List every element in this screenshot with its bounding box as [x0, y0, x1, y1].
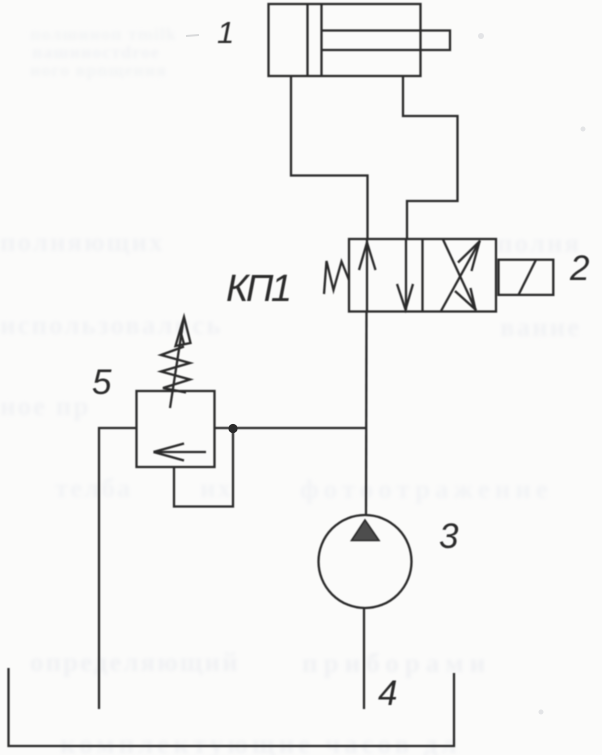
cylinder 1 body — [269, 4, 421, 76]
solenoid diagonal — [519, 260, 537, 295]
svg-text:полняющих: полняющих — [0, 227, 165, 257]
svg-text:3: 3 — [439, 517, 459, 556]
svg-text:определяющий: определяющий — [30, 647, 240, 677]
valve return spring — [324, 261, 349, 294]
cylinder 1 piston line b — [320, 4, 322, 76]
junction node dot — [228, 424, 237, 433]
line valve to pump — [365, 312, 368, 516]
svg-text:полшиноп тmilk: полшиноп тmilk — [30, 24, 177, 44]
valve up arrowhead — [359, 243, 376, 271]
valve position divider — [421, 239, 423, 312]
wire relief valve left port to tank — [99, 428, 137, 709]
cylinder 1 piston line a — [306, 4, 308, 76]
valve right-position diagonal arrow B — [443, 240, 476, 311]
tank 4 — [9, 668, 455, 746]
svg-text:их: их — [200, 473, 233, 503]
relief valve pilot arrowhead — [176, 317, 191, 346]
svg-text:2: 2 — [569, 249, 589, 288]
faint scan marks — [186, 35, 199, 36]
wire relief valve right port to pump line — [215, 427, 367, 429]
svg-text:телба: телба — [55, 473, 132, 503]
valve left-position down arrow line — [405, 239, 407, 310]
pump 3 circle — [319, 515, 412, 608]
line pump to tank — [363, 609, 365, 710]
pump output triangle — [352, 520, 380, 541]
svg-text:5: 5 — [92, 363, 112, 402]
wire cylinder left port to valve — [291, 76, 368, 239]
solenoid 2 box — [499, 260, 554, 295]
relief valve pilot arrow shaft — [170, 320, 184, 408]
relief valve spring — [161, 347, 190, 393]
svg-text:пашиностdroе: пашиностdroе — [32, 42, 160, 62]
pilot feedback loop — [174, 430, 233, 507]
relief valve 5 square — [137, 391, 215, 467]
wire cylinder right port to valve — [403, 76, 458, 239]
valve right-position diagonal arrow A — [441, 241, 480, 312]
svg-text:фотоотражение: фотоотражение — [300, 474, 553, 504]
valve left-position up arrow line — [366, 240, 368, 312]
svg-text:ное пр: ное пр — [0, 391, 90, 421]
valve KП1 body — [349, 239, 496, 312]
svg-text:комплектующие часов дл: комплектующие часов дл — [60, 729, 461, 755]
svg-text:КП1: КП1 — [226, 268, 290, 310]
svg-text:1: 1 — [217, 15, 234, 50]
svg-text:4: 4 — [378, 674, 397, 713]
relief valve internal arrow — [155, 451, 206, 453]
cylinder 1 rod — [322, 31, 451, 51]
svg-text:вание: вание — [500, 312, 581, 342]
svg-text:полня: полня — [497, 228, 581, 258]
valve down arrowhead — [397, 284, 413, 310]
svg-text:ного врnщения: ного врnщения — [30, 60, 167, 80]
